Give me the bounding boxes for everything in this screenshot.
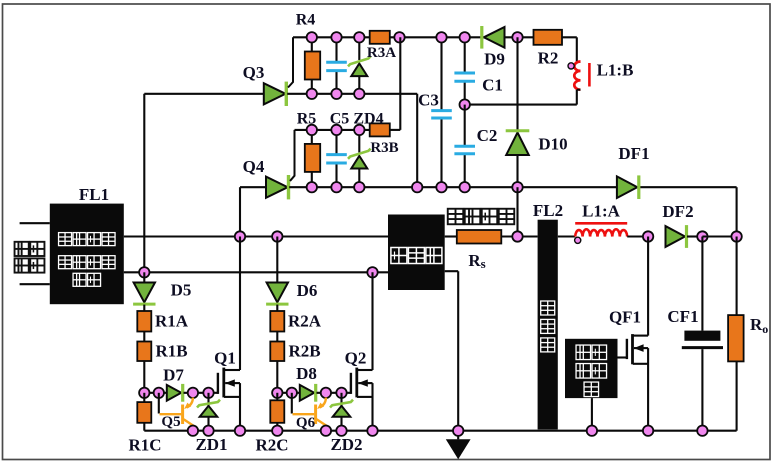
wire L1:B top link — [577, 61, 581, 64]
node R1B/R1C junction — [139, 388, 149, 398]
FL1 text line3 (保护) — [73, 273, 86, 286]
wire rail2 FL1 to rectifier — [124, 271, 388, 273]
svg-text:R2A: R2A — [288, 312, 322, 331]
wire R3B right lead — [390, 129, 401, 131]
resistor R4 — [305, 52, 320, 80]
wire QF1 gate lead — [618, 356, 627, 358]
resistor Ro — [728, 315, 744, 361]
node R5 top — [307, 125, 317, 135]
zener ZD1 — [200, 406, 218, 417]
wire Q2 drain stub — [357, 369, 373, 371]
wire Ro top lead — [736, 237, 738, 316]
node C4 bottom — [331, 89, 341, 99]
node ZD4 bottom — [354, 182, 364, 192]
svg-text:D5: D5 — [171, 281, 192, 300]
svg-text:QF1: QF1 — [609, 308, 641, 327]
wire FL2 to L1:A — [558, 235, 575, 237]
diode D9 — [484, 27, 505, 48]
node D7 cathode / Q5 collector — [188, 388, 198, 398]
polarity dot L1:B — [568, 63, 574, 69]
transistor Q2 gate bar — [350, 373, 352, 394]
FL1 text line2 (器及浪涌) — [59, 256, 72, 269]
wire D5 top lead — [143, 272, 145, 282]
wire upper snubber bottom rail — [287, 93, 417, 95]
diode D7 — [167, 385, 181, 401]
wire D5 to R1A — [143, 305, 145, 311]
resistor R2C — [270, 400, 284, 423]
wire AC input bottom — [20, 283, 50, 285]
node Q1 source / ground rail — [235, 426, 245, 436]
node C2 bottom — [460, 182, 470, 192]
wire C3 bottom lead — [440, 118, 442, 187]
wire node B to node C — [702, 235, 736, 237]
svg-text:CF1: CF1 — [667, 307, 698, 326]
node R4 bottom — [307, 89, 317, 99]
wire top rail — [293, 36, 577, 38]
wire L1:B bottom lead — [576, 90, 578, 105]
resistor Rs — [457, 230, 502, 244]
resistor R5 — [305, 144, 320, 172]
node Q5 base tap — [154, 388, 164, 398]
wire node row left — [144, 392, 167, 394]
wire C2 bottom lead — [464, 154, 466, 187]
wire Q3 gate bend — [288, 37, 293, 87]
node Q6 emitter / ground rail — [321, 426, 331, 436]
svg-text:R1A: R1A — [155, 312, 189, 331]
node C (DF1 return / Ro) — [731, 231, 741, 241]
wire rectifier - drop — [457, 271, 459, 431]
inductor L1:A coil — [575, 229, 627, 236]
wire Q6 base drop — [291, 393, 293, 414]
svg-text:ZD2: ZD2 — [330, 435, 362, 454]
block rectifier bridge (整流桥) — [388, 215, 445, 291]
node CF1 bottom — [697, 426, 707, 436]
svg-text:C1: C1 — [482, 76, 503, 95]
wire Q2 drain vertical — [371, 272, 373, 370]
node rail2 / D5 / Q3 junction — [139, 267, 149, 277]
node R2C bottom — [272, 426, 282, 436]
wire Ro bottom lead — [736, 361, 738, 430]
node C1 top — [460, 32, 470, 42]
node C5 top — [331, 125, 341, 135]
node ZD4 top — [354, 125, 364, 135]
wire control block to ground rail — [591, 398, 593, 431]
wire rail1 FL1 to rectifier — [124, 235, 388, 237]
node B (DF2 / CF1) — [697, 231, 707, 241]
transistor Q1 source arrow — [225, 382, 240, 384]
svg-text:C2: C2 — [477, 126, 498, 145]
node ZD1 bottom — [203, 426, 213, 436]
svg-text:R1C: R1C — [128, 436, 161, 455]
capacitor C1 — [454, 72, 475, 75]
svg-text:L1:B: L1:B — [597, 61, 634, 80]
transistor Q5 — [160, 413, 182, 415]
capacitor CF1 — [684, 331, 720, 341]
wire top rail corner down to L1:B — [576, 37, 578, 62]
resistor R3A — [370, 31, 390, 44]
wire L1:A to node A — [627, 235, 648, 237]
svg-text:Q5: Q5 — [161, 414, 180, 430]
resistor R1B — [137, 342, 151, 362]
resistor R1C — [137, 402, 151, 423]
svg-text:DF2: DF2 — [662, 202, 693, 221]
wire Q4 gate bend — [290, 130, 295, 181]
wire D6 top lead — [276, 237, 278, 283]
transistor QF1 channel bar — [631, 334, 634, 364]
control text line1 (控制) — [576, 345, 591, 360]
node D9 cathode-rail — [512, 32, 522, 42]
svg-text:D10: D10 — [538, 135, 567, 154]
FL1 text line1 (输入滤波) — [59, 233, 72, 246]
wire rectifier - output — [445, 270, 459, 272]
wire DF1 return drop — [736, 187, 738, 236]
wire AC input top — [20, 222, 50, 224]
svg-text:R4: R4 — [296, 12, 316, 29]
transistor Q1 body stub — [224, 396, 240, 398]
wire L1:B bottom return — [465, 104, 577, 106]
wire CF1 top lead — [701, 237, 703, 331]
wire C3 top lead — [440, 37, 442, 110]
wire Q3 anode vertical — [143, 94, 145, 272]
node D10 mid rail — [512, 182, 522, 192]
inductor L1:B coil — [574, 62, 580, 90]
wire L1:B bottom link — [577, 89, 581, 91]
wire ZD4 top lead — [358, 130, 360, 153]
wire R1A to R1B — [143, 332, 145, 342]
wire ZD1 vertical — [207, 393, 209, 431]
resistor R1A — [137, 311, 151, 332]
label AC input line1 (交流) — [15, 242, 29, 256]
node ZD1 top — [203, 388, 213, 398]
wire QF1 drain vertical — [647, 237, 649, 336]
block FL1 input filter & surge protection — [50, 204, 124, 305]
diode D5 — [134, 283, 155, 303]
wire Rs to FL2 — [501, 235, 537, 237]
ground — [446, 439, 471, 459]
svg-text:Q2: Q2 — [345, 349, 367, 368]
wire D10 top lead — [516, 37, 518, 130]
wire D6 to R2A — [276, 305, 278, 311]
wire upper-bottom drop to mid rail — [416, 94, 418, 187]
wire Q4 anode horizontal — [240, 186, 266, 188]
resistor R2A — [270, 311, 284, 332]
resistor R2 — [534, 30, 563, 45]
transistor Q2 channel bar — [355, 368, 358, 398]
svg-text:R3B: R3B — [370, 140, 398, 156]
svg-text:R2C: R2C — [255, 436, 288, 455]
control text line2 (与驱) — [576, 364, 591, 379]
thyristor Q3 — [264, 83, 286, 104]
svg-text:R2B: R2B — [288, 342, 320, 361]
wire Q3 anode horizontal — [144, 93, 263, 95]
node Q2 source / ground rail — [367, 426, 377, 436]
node R3A right — [394, 32, 404, 42]
wire C1 top lead — [464, 37, 466, 73]
svg-text:Q6: Q6 — [296, 415, 316, 431]
wire QF1 drain stub — [633, 335, 648, 337]
wire QF1 source vertical — [647, 348, 649, 431]
node rail1 / Q4 / Q1 junction — [235, 231, 245, 241]
resistor R2B — [270, 342, 284, 362]
node rail2 / Q2 junction — [367, 267, 377, 277]
node ZD3 top — [354, 32, 364, 42]
polarity dot L1:A — [575, 237, 581, 243]
wire R2C top lead — [276, 393, 278, 401]
wire Q1 drain vertical — [239, 237, 241, 371]
wire lower snubber top rail — [295, 129, 370, 131]
transistor QF1 source arrow — [634, 347, 648, 349]
svg-text:Q4: Q4 — [243, 157, 265, 176]
wire R5 branch — [311, 130, 313, 187]
label current-limit resistor (限流电阻) — [448, 209, 464, 225]
node ZD2 bottom — [336, 426, 346, 436]
svg-text:Ro: Ro — [750, 315, 768, 336]
wire C5 bottom lead — [335, 163, 337, 187]
zener ZD2 — [333, 406, 351, 417]
node rail1 / D6 junction — [272, 231, 282, 241]
svg-text:L1:A: L1:A — [582, 201, 621, 220]
block control & drive (控制与驱动) — [565, 339, 618, 398]
wire ZD3 top lead — [358, 37, 360, 60]
wire mid rail (Q4 cathode to DF1 loop) — [289, 186, 736, 188]
svg-text:D8: D8 — [296, 364, 317, 383]
node D8 cathode / Q6 collector — [321, 388, 331, 398]
svg-text:FL2: FL2 — [533, 201, 563, 220]
wire C4 bottom lead — [335, 71, 337, 94]
wire D10 bottom lead — [516, 155, 518, 187]
capacitor C2 — [454, 145, 475, 148]
wire ZD4 bottom lead — [358, 169, 360, 188]
svg-text:D9: D9 — [484, 50, 505, 69]
zener ZD3 (unlabeled) — [351, 64, 367, 77]
wire C5 top lead — [335, 130, 337, 155]
svg-text:R1B: R1B — [155, 342, 187, 361]
capacitor C5 — [326, 153, 347, 156]
wire R1C bottom lead — [143, 423, 145, 431]
svg-text:Q1: Q1 — [214, 349, 236, 368]
wire D10 drop to Rs node — [516, 187, 518, 236]
node R5 bottom — [307, 182, 317, 192]
wire R1C top lead — [143, 393, 145, 402]
node R2B/R2C junction — [272, 388, 282, 398]
transistor QF1 gate bar — [626, 339, 628, 359]
svg-text:Rs: Rs — [468, 251, 485, 271]
svg-text:D6: D6 — [297, 281, 318, 300]
wire bottom ground rail — [144, 430, 736, 432]
node control block / ground rail — [587, 426, 597, 436]
FL2 text char3 (器) — [541, 338, 555, 352]
wire C1 bottom lead — [464, 81, 466, 104]
node upper drop joins mid rail — [412, 182, 422, 192]
wire ZD3 bottom lead — [358, 76, 360, 94]
wire Q1 drain stub — [224, 369, 240, 371]
transistor QF1 body stub — [633, 363, 648, 365]
control text line3 (动) — [584, 382, 599, 397]
wire R2C bottom lead — [276, 423, 278, 431]
svg-text:DF1: DF1 — [618, 144, 649, 163]
wire Q5 base drop — [158, 393, 160, 414]
wire R3A/R3B join vertical — [399, 37, 401, 130]
svg-text:D7: D7 — [163, 366, 184, 385]
svg-text:Q3: Q3 — [243, 63, 265, 82]
wire Q4 anode drop to rail1 — [239, 187, 241, 236]
block FL2 output filter (滤波器) — [538, 220, 558, 430]
label AC input line2 (输入) — [15, 258, 29, 272]
svg-text:C3: C3 — [418, 91, 439, 110]
diode DF1 — [617, 176, 637, 198]
transistor Q1 channel bar — [222, 368, 225, 398]
svg-text:ZD1: ZD1 — [195, 435, 227, 454]
resistor R3B — [370, 123, 390, 136]
capacitor C3 — [431, 109, 452, 112]
svg-text:R2: R2 — [538, 49, 559, 68]
svg-text:R3A: R3A — [367, 45, 396, 61]
wire C4 top lead — [335, 37, 337, 62]
wire C2 top lead — [464, 105, 466, 147]
transistor Q6 — [293, 413, 315, 415]
diode D6 — [267, 283, 288, 303]
wire D8 to gate — [317, 392, 351, 394]
diode D10 — [506, 133, 529, 156]
wire R2B to node row — [276, 361, 278, 393]
wire ZD2 vertical — [340, 393, 342, 431]
node C4 top — [331, 32, 341, 42]
node ground rail / rectifier - — [453, 426, 463, 436]
wire R2A to R2B — [276, 332, 278, 342]
node C3 top — [436, 32, 446, 42]
thyristor Q4 — [266, 177, 288, 198]
diode DF2 — [666, 226, 686, 247]
zener ZD4 — [351, 156, 367, 169]
node ZD3 bottom — [354, 89, 364, 99]
node C1/C2 junction — [460, 99, 470, 109]
node Rs/FL2/D10 junction — [512, 231, 522, 241]
node Q5 emitter / ground rail — [188, 426, 198, 436]
transistor Q2 source arrow — [358, 382, 372, 384]
node Q6 base tap — [287, 388, 297, 398]
capacitor C4 (unlabeled) — [326, 61, 347, 64]
svg-text:FL1: FL1 — [79, 185, 109, 204]
diode D8 — [300, 385, 314, 401]
node A (L1:A / DF2 / QF1 drain) — [643, 231, 653, 241]
FL2 text char2 (波) — [541, 319, 555, 333]
rectifier text (整流桥) — [391, 248, 407, 264]
wire rectifier + output — [445, 235, 457, 237]
transistor Q2 body stub — [357, 396, 373, 398]
wire DF2 to node B — [687, 235, 702, 237]
node QF1 source / ground rail — [643, 426, 653, 436]
wire R1B to node row — [143, 361, 145, 393]
wire Q2 source vertical — [371, 383, 373, 431]
node C3 bottom — [436, 182, 446, 192]
transistor Q1 gate bar — [217, 373, 219, 394]
node ZD2 top — [336, 388, 346, 398]
wire Q1 source vertical — [239, 383, 241, 431]
node R4 top — [307, 32, 317, 42]
wire node row right — [277, 392, 300, 394]
wire D7 to gate — [184, 392, 218, 394]
wire CF1 bottom lead — [701, 349, 703, 431]
node C5 bottom — [331, 182, 341, 192]
FL2 text char1 (滤) — [541, 301, 555, 315]
wire R4 branch — [311, 37, 313, 94]
